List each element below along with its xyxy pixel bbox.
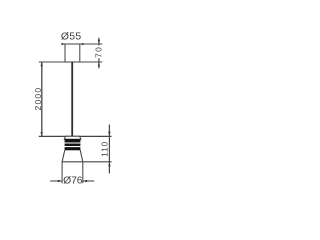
canopy (ceiling cup) [65, 44, 80, 62]
dimension line 2000 [41, 62, 43, 136]
arrowhead 110 bottom (outside, pointing up) [108, 162, 110, 167]
shade cylinder left side / Ø76 left extension [61, 162, 63, 184]
dimension line Ø76 right segment [83, 180, 94, 182]
arrowhead 70 top (outside, pointing down) [98, 40, 100, 44]
dimension line 110 [108, 125, 110, 174]
shade cylinder right side / Ø76 right extension [82, 162, 84, 184]
arrowhead 2000 top [41, 62, 43, 66]
svg-text:110: 110 [100, 141, 110, 157]
lamp socket ribs [65, 139, 81, 150]
arrowhead 70 bottom (outside, pointing up) [98, 62, 100, 66]
dimension line 70 (upper segment) [98, 38, 100, 46]
arrowhead Ø55 left [61, 43, 65, 45]
shade junction line + 110 bottom extension [62, 161, 112, 163]
arrowhead Ø76 left (pointing right) [58, 180, 62, 182]
arrowhead Ø55 right [80, 43, 84, 45]
rib gap 1 [64, 142, 80, 144]
svg-text:70: 70 [93, 46, 103, 58]
arrowhead 2000 bottom [41, 132, 43, 136]
dimension line 70 (lower segment) [98, 58, 100, 68]
svg-text:Ø55: Ø55 [61, 32, 82, 43]
dimension line Ø76 left segment [50, 180, 62, 182]
lamp holder cap [64, 136, 81, 139]
arrowhead 110 top (outside, pointing down) [108, 132, 110, 137]
cord [71, 62, 73, 137]
shade cone right side [80, 150, 83, 162]
svg-text:2000: 2000 [33, 87, 43, 111]
lamp top extension line (2000 bottom / 110 top) [39, 135, 112, 137]
arrowhead Ø76 right (pointing left) [83, 180, 87, 182]
dimension line Ø55 (canopy top edge + extension to 70 dim) [62, 43, 103, 45]
shade cone left side [62, 150, 65, 162]
svg-text:Ø76: Ø76 [63, 176, 83, 187]
rib gap 2 [64, 146, 80, 148]
canopy bottom line + extensions (2000 top / 70 bottom) [39, 61, 103, 63]
